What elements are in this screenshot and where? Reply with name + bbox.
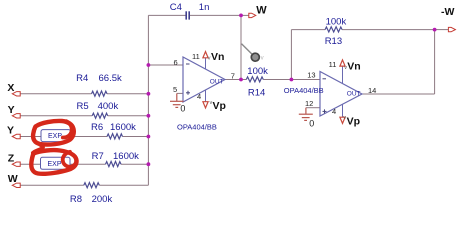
junction dot bus Y2 row [147,135,151,139]
capacitor C4 [186,11,189,19]
port Y arrow [12,114,20,118]
wire: R13 row left [291,29,325,31]
op-amp U2 Vn arrow marker [340,60,345,66]
resistor R4 [92,91,108,96]
svg-text:v: v [261,56,264,62]
svg-text:R8: R8 [70,194,82,203]
svg-text:11: 11 [192,52,200,61]
svg-text:Vp: Vp [347,115,360,127]
svg-text:OUT: OUT [347,91,361,98]
wire: riser op1 output to W port [240,15,242,79]
port X arrow [12,92,20,96]
port W input arrow [12,183,20,187]
op-amp U2 Vp arrow marker [340,117,345,123]
svg-text:W: W [256,4,267,16]
wire: -W port stub [435,29,450,31]
wire: feedback riser R13 left [290,30,292,80]
svg-text:EXP: EXP [48,161,62,168]
junction dot bus X row [147,92,151,96]
wire: top feedback C4 right segment [190,14,241,16]
resistor R7 [106,161,122,166]
op-amp U1 Vp arrow marker [203,102,208,108]
op-amp U1 Vp power stem [205,90,207,101]
svg-text:1n: 1n [199,2,210,13]
svg-text:Y: Y [8,104,15,116]
svg-text:1600k: 1600k [113,151,139,162]
wire: W port stub [241,14,249,16]
wire: ground stub op2 pin 12 [306,107,320,109]
wire: Y row right [108,115,149,117]
svg-text:EXP: EXP [48,133,62,140]
svg-text:Y: Y [7,125,14,137]
wire: Z row to EXP2 [20,163,41,165]
red annotation loop around EXP1 [33,121,74,145]
wire: Y row left [20,115,92,117]
wire: op1 inverting input pin 6 [148,64,183,66]
wire: riser op2 output to -W [434,30,436,94]
wire: op1 output to R14 [225,79,246,81]
resistor R6 [107,134,123,139]
wire: X row left [20,93,92,95]
svg-text:W: W [8,173,18,185]
svg-text:v: v [344,65,347,71]
wire: top feedback C4 left segment [148,14,185,16]
svg-text:4: 4 [197,92,201,101]
voltage probe marker head [251,53,259,61]
svg-text:400k: 400k [98,101,119,112]
svg-text:C4: C4 [170,2,182,13]
red annotation connector stroke [33,145,43,154]
op-amp U2 Vn power stem [342,66,344,83]
op-amp U1 Vn arrow marker [203,52,208,58]
junction dot bus Z row [147,162,151,166]
port W output arrow [249,13,256,17]
wire: R13 row right [342,29,435,31]
svg-text:R5: R5 [77,101,89,112]
op-amp U1 Vn power stem [205,58,207,69]
wire: X row right [107,93,148,95]
resistor R14 [246,77,263,82]
op-amp U2 plus sign [323,109,327,113]
wire: R6 to bus [123,136,149,138]
svg-text:R14: R14 [248,88,265,99]
svg-text:v: v [210,100,213,106]
svg-text:6: 6 [174,58,178,67]
svg-text:Vn: Vn [211,51,224,63]
resistor R5 [92,113,108,118]
red annotation loop EXP1 right inner curl [63,121,72,137]
svg-text:200k: 200k [92,194,113,203]
svg-text:R13: R13 [325,36,342,47]
op-amp U1 plus sign [186,91,190,95]
ground 0 at op1 pin 5 [170,93,184,107]
svg-text:R6: R6 [91,122,103,133]
op-amp U1 OPA404/BB triangle [183,57,225,102]
resistor R8 [84,183,100,188]
wire: input bus vertical [147,15,149,185]
svg-text:100k: 100k [326,16,347,27]
voltage probe marker stem [242,44,253,55]
svg-text:OPA404/BB: OPA404/BB [177,122,217,131]
svg-text:OPA404/BB: OPA404/BB [284,86,324,95]
svg-text:11: 11 [329,60,337,69]
svg-text:12: 12 [305,99,313,108]
svg-text:0: 0 [309,118,314,128]
svg-text:5: 5 [173,85,177,94]
ground 0 at op2 pin 12 [299,108,313,121]
svg-text:-W: -W [441,6,454,18]
svg-text:R7: R7 [92,151,104,162]
wire: Y2 row to EXP1 [20,136,41,138]
port Y2 arrow [12,134,20,138]
op-amp U2 Vp power stem [342,104,344,117]
EXP block 1 [41,130,71,142]
op-amp U1 minus sign [186,63,190,65]
svg-text:Vn: Vn [347,61,360,73]
junction dot -W riser [433,28,437,32]
wire: R7 to bus [121,163,148,165]
op-amp U2 OPA404/BB triangle [320,72,362,117]
port -W output arrow [448,27,455,31]
svg-text:v: v [208,56,211,62]
svg-text:1600k: 1600k [110,122,136,133]
red annotation loop EXP2 right inner curl [63,152,77,167]
op-amp U2 minus sign [323,78,327,80]
wire: EXP1 to R6 [71,136,108,138]
svg-text:Vp: Vp [213,100,226,112]
port Z arrow [12,162,20,166]
wire: R14 to op2 pin 13 [263,79,320,81]
wire: R8 to bus [99,184,148,186]
wire: EXP2 to R7 [70,163,106,165]
wire: op2 output [362,93,435,95]
junction dot bus Y row [147,114,151,118]
svg-text:7: 7 [231,71,235,80]
svg-text:100k: 100k [247,66,268,77]
junction dot W port [239,14,243,18]
junction dot op1 output [239,78,243,82]
svg-text:R4: R4 [76,73,88,84]
svg-text:X: X [7,82,14,94]
wire: W row left [19,184,84,186]
resistor R13 [325,27,342,32]
svg-text:v: v [343,115,346,121]
svg-text:0: 0 [180,104,185,114]
svg-text:OUT: OUT [210,79,224,86]
svg-text:13: 13 [307,71,315,80]
red annotation loop around EXP2 [31,150,76,174]
junction dot feedback tap [290,78,294,82]
junction dot bus pin6 [147,63,151,67]
EXP block 2 [41,157,71,169]
svg-text:14: 14 [368,86,376,95]
svg-text:66.5k: 66.5k [99,73,122,84]
wire: ground stub op1 pin 5 [177,92,183,94]
svg-text:Z: Z [8,153,15,165]
svg-text:4: 4 [332,107,336,116]
